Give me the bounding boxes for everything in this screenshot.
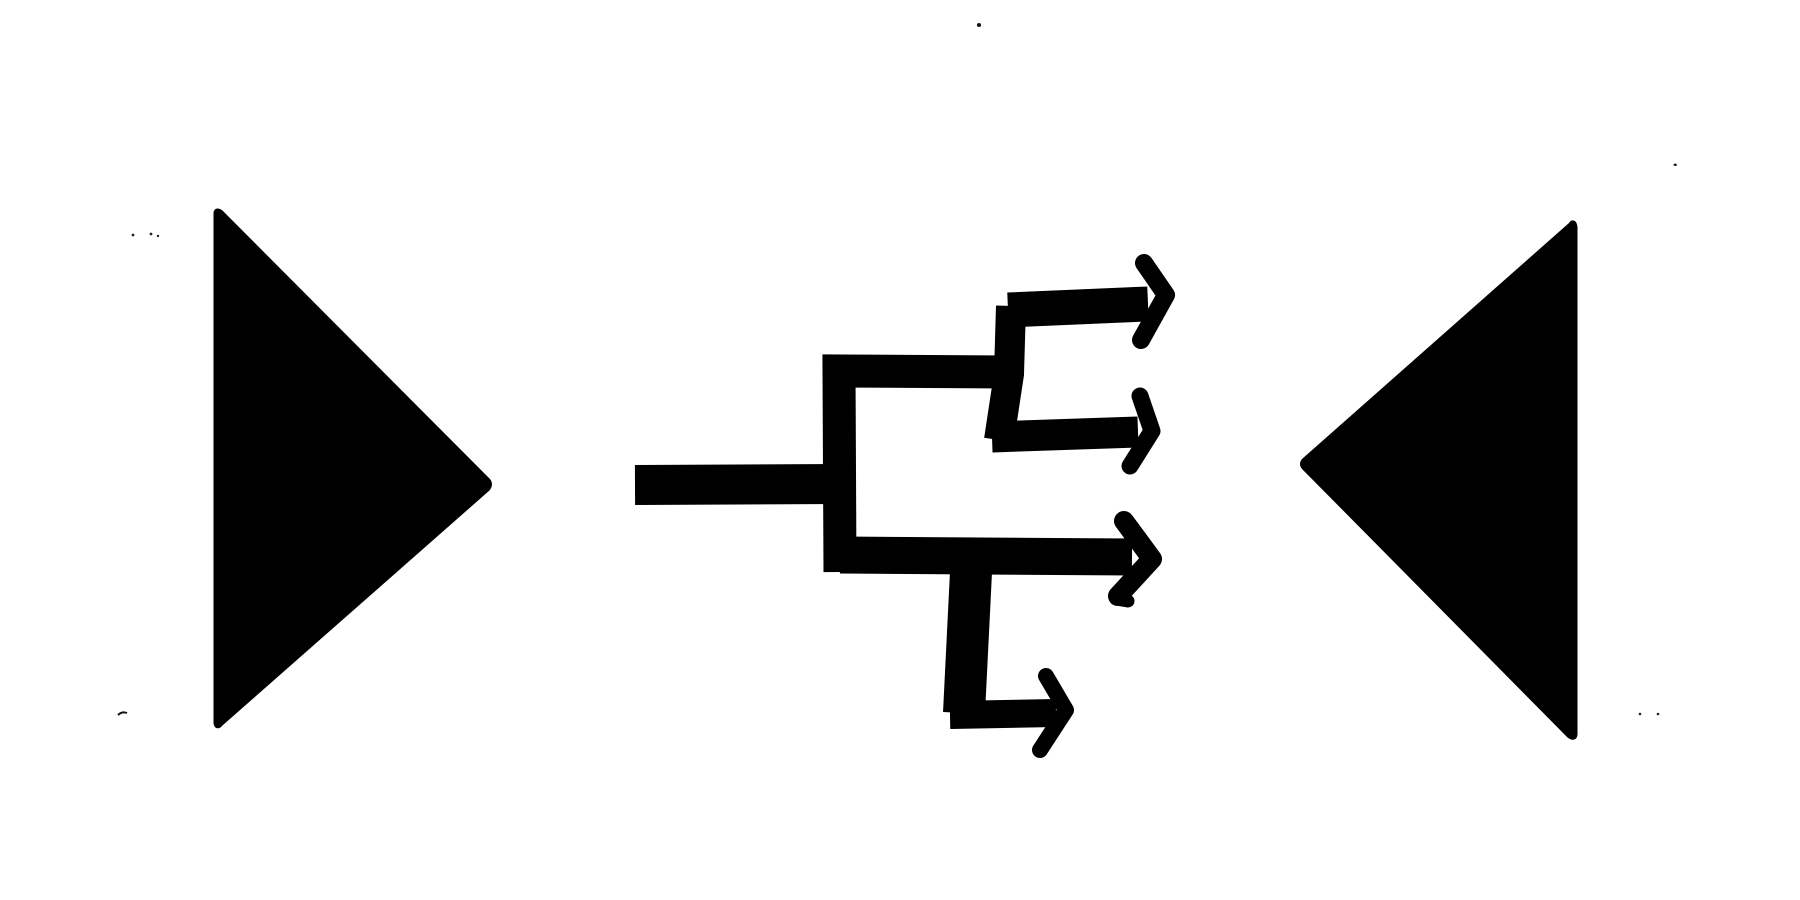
arrow A1 shaft (top) bbox=[1008, 304, 1148, 310]
arrow A3 head serif foot bbox=[1116, 599, 1128, 601]
arrow A3 head bbox=[1118, 521, 1152, 596]
speck dots upper-left bbox=[132, 234, 135, 237]
speck dot top bbox=[977, 23, 981, 27]
trunk wire (vertical) with upper branch wire bbox=[839, 371, 1008, 572]
right triangle (solid left-pointing) bbox=[1304, 224, 1575, 736]
arrow A4 head bbox=[1040, 676, 1066, 750]
speck dot right bbox=[1673, 164, 1677, 167]
vertical connector bar between arrow 1 and arrow 2 bbox=[999, 306, 1011, 440]
speck dots lower-right bbox=[1639, 713, 1642, 716]
input wire (left stub into trunk) bbox=[635, 484, 840, 485]
arrow A2 shaft (second) bbox=[992, 432, 1138, 437]
arrow A4 drop wire (vertical descender) bbox=[964, 572, 971, 713]
arrow A1 head bbox=[1141, 263, 1166, 340]
arrow A2 head bbox=[1130, 396, 1152, 466]
left triangle (solid right-pointing) bbox=[217, 212, 489, 725]
speck squiggle lower-left bbox=[118, 712, 127, 715]
arrow A4 shaft (bottom) bbox=[950, 713, 1056, 715]
arrow A3 shaft (long bottom branch from trunk) bbox=[840, 555, 1132, 557]
